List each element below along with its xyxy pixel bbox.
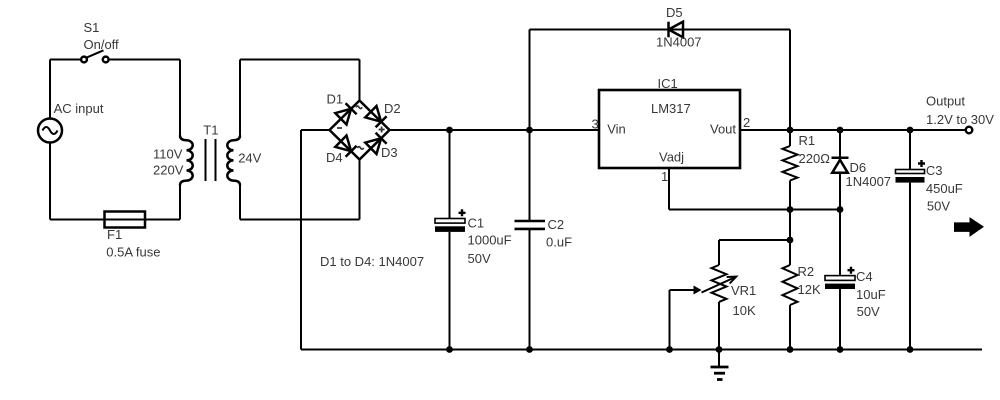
svg-text:0.uF: 0.uF	[546, 234, 572, 249]
svg-text:IC1: IC1	[658, 76, 678, 91]
svg-text:24V: 24V	[238, 151, 261, 166]
svg-text:C1: C1	[468, 216, 485, 231]
svg-text:12K: 12K	[798, 282, 821, 297]
svg-text:50V: 50V	[468, 251, 491, 266]
svg-text:S1: S1	[84, 20, 100, 35]
svg-text:1N4007: 1N4007	[656, 35, 702, 50]
svg-text:1: 1	[661, 169, 668, 184]
svg-text:220V: 220V	[153, 163, 184, 178]
svg-text:F1: F1	[107, 227, 122, 242]
svg-text:D6: D6	[850, 160, 867, 175]
svg-text:D2: D2	[384, 101, 401, 116]
svg-text:VR1: VR1	[731, 283, 756, 298]
svg-text:110V: 110V	[153, 147, 183, 162]
svg-text:Vin: Vin	[607, 122, 626, 137]
svg-text:R2: R2	[798, 264, 815, 279]
svg-text:D1 to D4: 1N4007: D1 to D4: 1N4007	[320, 254, 424, 269]
svg-text:Output: Output	[926, 94, 965, 109]
svg-text:D4: D4	[326, 150, 343, 165]
svg-text:10uF: 10uF	[856, 287, 886, 302]
svg-text:0.5A fuse: 0.5A fuse	[106, 244, 160, 259]
svg-text:D5: D5	[666, 5, 683, 20]
svg-text:Vout: Vout	[710, 122, 736, 137]
svg-text:3: 3	[592, 117, 599, 132]
svg-text:On/off: On/off	[84, 37, 120, 52]
svg-text:450uF: 450uF	[926, 181, 963, 196]
svg-text:R1: R1	[799, 133, 816, 148]
svg-text:AC input: AC input	[54, 101, 104, 116]
svg-text:10K: 10K	[733, 303, 756, 318]
svg-text:50V: 50V	[927, 199, 950, 214]
svg-text:Vadj: Vadj	[659, 150, 684, 165]
svg-text:D1: D1	[327, 92, 344, 107]
svg-text:2: 2	[743, 115, 750, 130]
svg-text:C3: C3	[926, 163, 943, 178]
svg-text:C4: C4	[856, 269, 873, 284]
svg-text:LM317: LM317	[651, 101, 691, 116]
svg-text:220Ω: 220Ω	[799, 151, 831, 166]
svg-text:1000uF: 1000uF	[468, 233, 512, 248]
svg-text:1N4007: 1N4007	[846, 174, 892, 189]
svg-text:50V: 50V	[857, 304, 880, 319]
svg-text:C2: C2	[548, 217, 565, 232]
svg-text:1.2V to 30V: 1.2V to 30V	[926, 112, 994, 127]
svg-text:D3: D3	[381, 145, 398, 160]
svg-text:T1: T1	[203, 123, 218, 138]
